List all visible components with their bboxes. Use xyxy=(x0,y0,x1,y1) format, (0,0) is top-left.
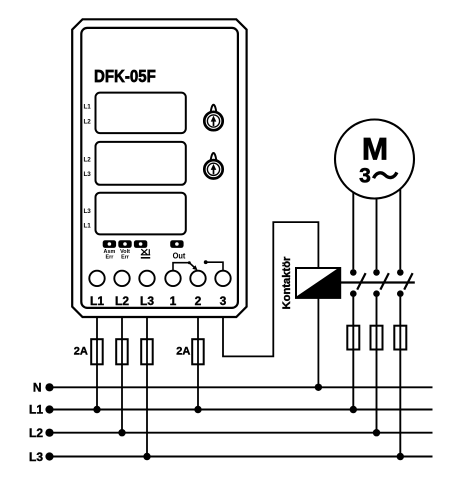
svg-text:2: 2 xyxy=(195,294,202,308)
svg-text:L2: L2 xyxy=(115,294,129,308)
svg-text:L2: L2 xyxy=(83,156,91,163)
svg-text:1: 1 xyxy=(170,294,177,308)
svg-text:L3: L3 xyxy=(140,294,154,308)
svg-text:Err: Err xyxy=(106,255,115,261)
svg-text:L2: L2 xyxy=(83,118,91,125)
svg-text:M: M xyxy=(362,131,388,167)
svg-text:L1: L1 xyxy=(29,403,43,417)
svg-text:2A: 2A xyxy=(176,345,190,357)
svg-text:3: 3 xyxy=(220,294,227,308)
svg-text:3: 3 xyxy=(359,165,371,188)
svg-text:L1: L1 xyxy=(90,294,104,308)
svg-text:DFK-05F: DFK-05F xyxy=(94,66,156,86)
svg-text:2A: 2A xyxy=(74,345,88,357)
svg-text:Err: Err xyxy=(121,255,130,261)
svg-text:L1: L1 xyxy=(83,103,91,110)
svg-text:L3: L3 xyxy=(83,171,91,178)
svg-text:Kontaktör: Kontaktör xyxy=(281,256,293,309)
svg-text:L2: L2 xyxy=(29,426,43,440)
svg-text:L1: L1 xyxy=(83,222,91,229)
svg-text:Out: Out xyxy=(173,252,186,261)
svg-text:L3: L3 xyxy=(29,450,43,464)
svg-text:L3: L3 xyxy=(83,208,91,215)
svg-text:N: N xyxy=(33,380,42,394)
